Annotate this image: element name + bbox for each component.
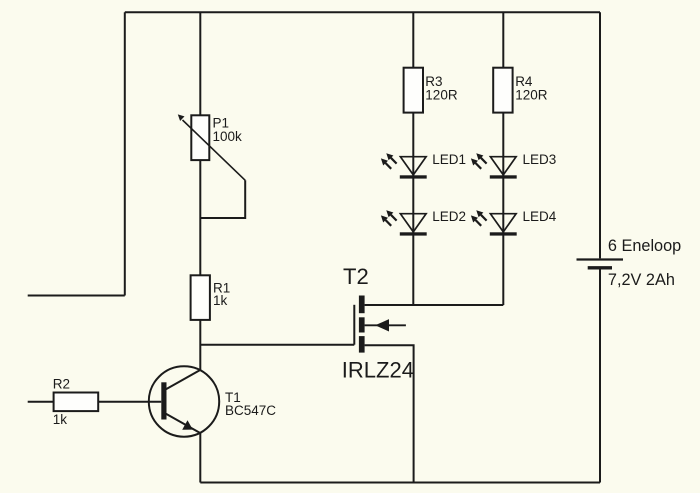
T1 circle — [149, 366, 219, 436]
LED2 triangle — [400, 214, 426, 232]
P1 body — [191, 115, 209, 160]
wire LED2 to drain — [412, 235, 414, 305]
R4 body — [493, 68, 512, 113]
T1 emitter arrow — [182, 420, 193, 429]
svg-text:LED2: LED2 — [432, 209, 466, 224]
LED1 light arrows — [391, 158, 397, 164]
svg-text:LED4: LED4 — [523, 209, 557, 224]
LED2 cathode bar — [400, 232, 427, 235]
resistor R1 — [191, 275, 231, 320]
LED LED2 — [381, 209, 466, 236]
wire LED1 to LED2 — [412, 178, 414, 234]
wire pot top — [199, 12, 201, 115]
P1 wiper arrow — [183, 120, 246, 180]
R3 body — [404, 68, 423, 113]
transistor T1 — [149, 366, 276, 436]
LED3 cathode bar — [490, 175, 517, 178]
wire battery top — [599, 12, 601, 258]
svg-text:BC547C: BC547C — [225, 403, 276, 418]
svg-text:IRLZ24: IRLZ24 — [342, 358, 414, 383]
battery B1 — [577, 237, 682, 289]
wire R4 top — [502, 12, 504, 67]
R2 body — [54, 393, 99, 412]
LED4 cathode bar — [490, 232, 517, 235]
wire R2 to T1 base — [98, 401, 161, 403]
battery negative plate — [588, 266, 612, 269]
wire bottom rail — [200, 482, 600, 484]
T2 body bar — [359, 317, 365, 332]
wire R2 left lead — [28, 401, 54, 403]
wire LED3 to LED4 — [502, 178, 504, 234]
LED LED3 — [471, 152, 556, 179]
wire R1 to T1 collector — [199, 320, 201, 370]
battery positive plate — [577, 258, 624, 260]
svg-text:120R: 120R — [425, 88, 458, 103]
svg-text:100k: 100k — [213, 129, 243, 144]
wire R4 to LED3 — [502, 113, 504, 177]
wire top rail — [125, 11, 600, 13]
resistor R4 — [493, 68, 548, 113]
wire gate lead — [200, 344, 354, 346]
T2 body arrow — [375, 319, 389, 331]
wire LED4 to drain — [502, 235, 504, 305]
svg-text:6 Eneloop: 6 Eneloop — [608, 237, 681, 255]
LED4 triangle — [490, 214, 516, 232]
svg-text:7,2V 2Ah: 7,2V 2Ah — [608, 271, 675, 289]
LED3 triangle — [490, 157, 516, 175]
T2 gate electrode — [353, 305, 355, 345]
wire R3 top — [412, 12, 414, 67]
wire pot wiper bend — [200, 180, 245, 218]
wire battery bottom — [599, 269, 601, 482]
T1 collector line — [166, 370, 201, 390]
wire R3 to LED1 — [412, 113, 414, 177]
T2 source bar — [359, 336, 365, 353]
svg-text:LED3: LED3 — [523, 152, 557, 167]
resistor R3 — [404, 68, 458, 113]
T2 body lead — [365, 324, 406, 326]
svg-text:1k: 1k — [53, 412, 68, 427]
wire source lead and down — [365, 345, 414, 482]
wire pot to R1 — [199, 160, 201, 276]
wire left input stub — [28, 295, 125, 297]
LED1 cathode bar — [400, 175, 427, 178]
LED3 light arrows — [481, 158, 487, 164]
T1 emitter line — [166, 414, 201, 434]
svg-text:T2: T2 — [343, 264, 369, 289]
resistor R2 — [53, 376, 98, 427]
wire T1 emitter down — [199, 433, 201, 483]
R1 body — [191, 275, 210, 320]
wire drain line — [365, 304, 504, 306]
LED1 triangle — [400, 157, 426, 175]
LED2 light arrows — [391, 215, 397, 221]
LED LED4 — [471, 209, 557, 236]
svg-text:LED1: LED1 — [432, 152, 466, 167]
LED4 light arrows — [481, 215, 487, 221]
potentiometer P1 — [178, 114, 245, 180]
T2 drain bar — [359, 296, 365, 314]
svg-text:1k: 1k — [213, 293, 228, 308]
T1 base bar — [161, 382, 166, 419]
mosfet T2 — [342, 264, 414, 383]
LED LED1 — [381, 152, 466, 179]
svg-text:R2: R2 — [53, 376, 70, 391]
svg-text:120R: 120R — [515, 88, 548, 103]
wire left vertical — [124, 12, 126, 295]
